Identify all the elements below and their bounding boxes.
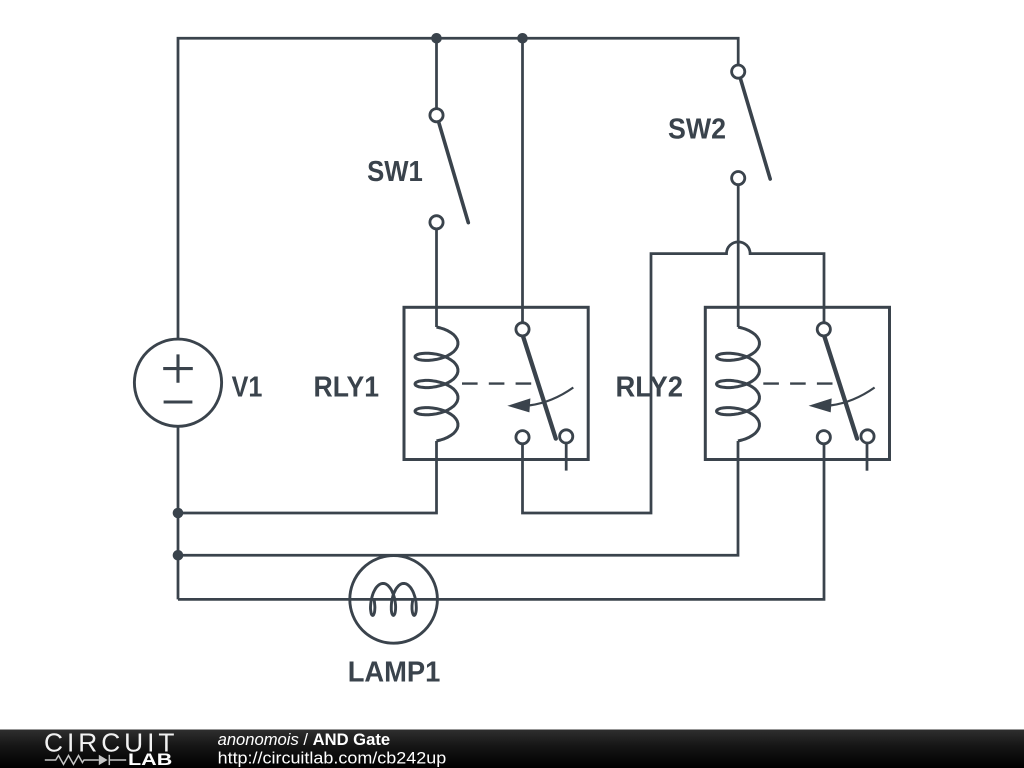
relay RLY2 common terminal pin bbox=[817, 323, 830, 336]
svg-text:RLY2: RLY2 bbox=[616, 372, 684, 404]
relay RLY2 coil L bbox=[717, 327, 760, 441]
wire RLY2 coil bottom to V1 minus bbox=[178, 441, 738, 555]
voltage source V1 bbox=[134, 339, 221, 426]
wire V1 minus down with taps bbox=[177, 426, 180, 599]
wire RLY1 NC contact to RLY2 common (series link) with hop bbox=[523, 242, 825, 513]
svg-text:V1: V1 bbox=[232, 372, 263, 404]
junction node dot on rail at RLY1 common bbox=[517, 33, 528, 44]
wire SW1 bottom to RLY1 coil bbox=[435, 228, 438, 327]
wire RLY1 common drop from rail bbox=[521, 38, 524, 323]
svg-text:RLY1: RLY1 bbox=[314, 372, 380, 404]
relay RLY2 switch lever bbox=[824, 336, 857, 439]
relay RLY2 box bbox=[705, 307, 889, 459]
junction node dot on rail at SW1 bbox=[431, 33, 442, 44]
relay RLY1 common terminal pin bbox=[516, 323, 529, 336]
switch SW1 lever bbox=[439, 123, 469, 223]
wire RLY1 NO stub bbox=[565, 442, 568, 471]
junction node dot V1/RLY1-coil return bbox=[173, 508, 184, 519]
svg-text:LAMP1: LAMP1 bbox=[348, 656, 441, 688]
relay RLY1 actuation arrow bbox=[530, 388, 574, 406]
wire lamp row: V1 minus to LAMP1 to RLY2 NC contact bbox=[178, 437, 824, 599]
switch SW1 bottom terminal bbox=[430, 216, 443, 229]
relay RLY1 dashed mechanical link bbox=[462, 382, 531, 384]
wire RLY2 NO stub bbox=[866, 442, 869, 471]
relay RLY1 box bbox=[404, 307, 588, 459]
junction node dot V1/RLY2-coil return bbox=[173, 550, 184, 561]
footer bar bbox=[0, 730, 1024, 768]
relay RLY1 switch lever bbox=[523, 336, 556, 439]
lamp LAMP1 bulb circle bbox=[350, 556, 438, 644]
lamp LAMP1 filament bbox=[371, 583, 417, 615]
switch SW2 lever bbox=[741, 79, 771, 179]
relay RLY2 NO contact pin bbox=[861, 430, 874, 443]
relay RLY1 coil L bbox=[415, 327, 458, 441]
svg-text:SW1: SW1 bbox=[367, 156, 423, 188]
wire SW1 top drop from rail bbox=[435, 38, 438, 109]
relay RLY2 dashed mechanical link bbox=[763, 382, 832, 384]
svg-text:SW2: SW2 bbox=[668, 114, 726, 146]
relay RLY1 NC contact pin bbox=[516, 431, 529, 444]
switch SW2 top terminal bbox=[732, 65, 745, 78]
wire top rail from V1 plus to SW2 bbox=[178, 38, 738, 340]
switch SW2 bottom terminal bbox=[732, 172, 745, 185]
relay RLY1 NO contact pin bbox=[560, 430, 573, 443]
wire V1 to RLY1 coil bottom bbox=[178, 441, 437, 513]
relay RLY2 actuation arrow bbox=[831, 388, 875, 406]
relay RLY2 NC contact pin bbox=[817, 431, 830, 444]
switch SW1 top terminal bbox=[430, 109, 443, 122]
wire SW2 bottom to RLY2 coil bbox=[737, 184, 740, 327]
svg-text:anonomois / AND Gate: anonomois / AND Gate bbox=[218, 730, 390, 749]
CircuitLab logo resistor-diode art bbox=[45, 755, 126, 765]
svg-text:http://circuitlab.com/cb242up: http://circuitlab.com/cb242up bbox=[218, 750, 447, 768]
svg-text:LAB: LAB bbox=[128, 750, 172, 768]
